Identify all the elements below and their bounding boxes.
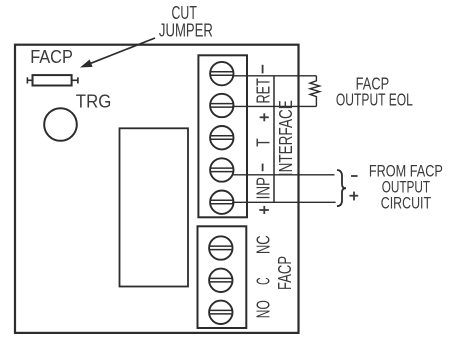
screw terminal T bbox=[210, 126, 233, 149]
label - (from facp minus) bbox=[351, 175, 358, 177]
screw terminal NC bbox=[209, 236, 232, 259]
jumper FACP bbox=[26, 77, 28, 83]
svg-text:INP: INP bbox=[253, 177, 273, 199]
screw terminal NO bbox=[209, 301, 232, 324]
wire INP- to brace bbox=[232, 174, 335, 176]
wire INP+ to brace bbox=[232, 201, 336, 203]
arrow from CUT JUMPER to jumper bbox=[89, 38, 156, 64]
trigger circle bbox=[44, 108, 77, 141]
screw terminal RET+ bbox=[210, 94, 233, 117]
screw terminal RET- bbox=[210, 62, 233, 85]
wire RET+ to EOL bbox=[232, 105, 316, 107]
relay module rectangle bbox=[120, 128, 189, 286]
interface terminal block bbox=[198, 55, 247, 217]
screw terminal INP+ bbox=[210, 191, 233, 214]
screw terminal INP- bbox=[210, 158, 233, 181]
label + (INP plus) bbox=[259, 206, 269, 214]
resistor FACP output EOL bbox=[310, 76, 320, 107]
label - (RET minus) bbox=[262, 65, 264, 74]
screw terminal C bbox=[209, 269, 232, 292]
svg-text:NC: NC bbox=[253, 235, 273, 254]
board outline bbox=[15, 45, 299, 333]
svg-text:OUTPUT EOL: OUTPUT EOL bbox=[336, 89, 413, 109]
svg-text:CIRCUIT: CIRCUIT bbox=[381, 195, 431, 213]
wire RET- to EOL bbox=[232, 75, 316, 77]
svg-text:NO: NO bbox=[253, 300, 273, 318]
brace bbox=[337, 170, 346, 206]
svg-text:C: C bbox=[253, 278, 273, 285]
interface label column divider bbox=[273, 76, 275, 203]
label + (from facp plus) bbox=[350, 192, 359, 201]
svg-text:TRG: TRG bbox=[76, 91, 112, 111]
svg-text:T: T bbox=[253, 138, 273, 147]
svg-text:JUMPER: JUMPER bbox=[159, 21, 213, 41]
svg-text:INTERFACE: INTERFACE bbox=[276, 100, 296, 176]
svg-text:FACP: FACP bbox=[275, 256, 295, 290]
label + (RET plus) bbox=[260, 113, 269, 121]
label - (INP minus) bbox=[262, 164, 264, 172]
facp terminal block bbox=[198, 226, 247, 328]
svg-text:RET: RET bbox=[253, 78, 273, 103]
svg-text:FACP: FACP bbox=[30, 46, 73, 67]
